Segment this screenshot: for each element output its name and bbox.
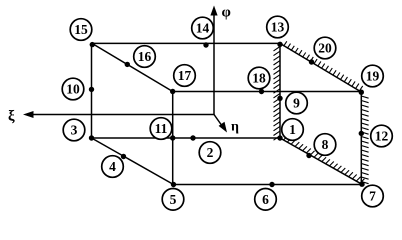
svg-text:14: 14 [196, 21, 210, 36]
svg-text:4: 4 [109, 159, 116, 174]
svg-text:ξ: ξ [8, 109, 15, 125]
svg-text:17: 17 [178, 68, 192, 83]
svg-text:8: 8 [322, 137, 329, 152]
svg-text:16: 16 [138, 49, 152, 64]
svg-text:9: 9 [293, 96, 300, 111]
svg-text:φ: φ [222, 5, 231, 21]
svg-text:η: η [231, 120, 239, 135]
svg-text:1: 1 [289, 122, 296, 137]
svg-text:11: 11 [155, 121, 168, 136]
svg-text:10: 10 [66, 82, 80, 97]
svg-text:12: 12 [375, 129, 389, 144]
svg-text:2: 2 [207, 145, 214, 160]
svg-text:7: 7 [369, 189, 376, 204]
svg-text:15: 15 [74, 22, 88, 37]
svg-text:3: 3 [71, 123, 78, 138]
svg-text:18: 18 [252, 71, 266, 86]
svg-text:5: 5 [170, 192, 177, 207]
svg-text:13: 13 [271, 20, 285, 35]
svg-text:20: 20 [318, 41, 332, 56]
svg-text:19: 19 [366, 69, 380, 84]
svg-text:6: 6 [262, 192, 269, 207]
